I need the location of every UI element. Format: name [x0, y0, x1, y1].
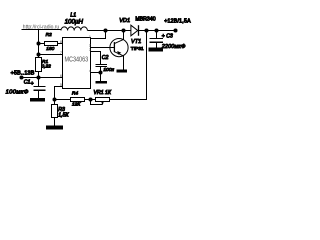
ground (under R3) — [46, 126, 63, 130]
output terminal dot — [174, 29, 178, 33]
node feedback divider junction — [53, 98, 57, 102]
svg-text:2200мкФ: 2200мкФ — [161, 44, 186, 50]
wire pin4 to junction — [91, 72, 101, 74]
svg-text:100µH: 100µH — [65, 18, 84, 25]
node feedback tap — [145, 29, 149, 33]
svg-text:C3: C3 — [166, 33, 173, 39]
wire top rail left (link underline into L1) — [22, 29, 62, 31]
svg-text:100мкФ: 100мкФ — [6, 90, 29, 96]
node R4 / VR1 junction — [89, 98, 93, 102]
svg-text:VD1: VD1 — [119, 18, 130, 24]
svg-text:R4: R4 — [72, 91, 78, 97]
diode VD1 — [131, 25, 139, 36]
ground (under C1) — [30, 98, 45, 101]
svg-text:L1: L1 — [70, 12, 76, 18]
potentiometer VR1 — [91, 98, 110, 105]
svg-text:VR1 1К: VR1 1К — [94, 90, 112, 96]
wire pin5 to feedback node — [55, 87, 63, 100]
svg-text:TIP31: TIP31 — [131, 46, 144, 52]
wire input line to pin 6 — [22, 77, 63, 79]
ground (under C3) — [149, 48, 164, 52]
svg-text:R2: R2 — [46, 32, 52, 38]
resistor R1 — [36, 58, 42, 87]
capacitor C2 — [91, 52, 108, 73]
svg-text:180: 180 — [46, 46, 54, 52]
input terminal dot — [20, 76, 24, 80]
wire top rail L1 to diode — [88, 30, 132, 32]
svg-text:MC34063: MC34063 — [65, 56, 89, 64]
resistor R3 — [52, 100, 58, 126]
svg-text:6: 6 — [60, 74, 62, 78]
wire top rail diode to output terminal — [139, 30, 176, 32]
capacitor C1 — [34, 87, 46, 99]
svg-text:1,5К: 1,5К — [58, 113, 69, 119]
node input junction (R1/C1/input line) — [37, 76, 41, 80]
resistor R2 — [39, 42, 63, 46]
node rail / pin1 — [104, 29, 108, 33]
node column / pin7 junction — [37, 53, 41, 57]
ground (under C2) — [96, 81, 108, 84]
wire left column from rail to R1 — [38, 30, 40, 58]
svg-text:+12В/1,5А: +12В/1,5А — [164, 19, 191, 25]
op-amp U1 MC34063 IC box — [63, 38, 91, 89]
ground (VT1 emitter) — [117, 70, 128, 73]
svg-text:+: + — [31, 81, 34, 87]
wire pin7 to column — [39, 54, 63, 56]
svg-text:MBR340: MBR340 — [135, 17, 155, 23]
resistor R4 — [55, 98, 96, 102]
svg-text:12К: 12К — [72, 101, 81, 107]
wire pin1 up to rail — [91, 31, 106, 39]
node column / R2 junction — [37, 42, 41, 46]
svg-text:VT1: VT1 — [131, 39, 141, 45]
inductor L1 — [61, 27, 87, 31]
svg-text:8: 8 — [60, 40, 62, 44]
node C2 / pin4 junction — [99, 71, 103, 75]
svg-text:+5В..13В: +5В..13В — [11, 70, 35, 76]
node C3 tap — [155, 29, 159, 33]
svg-text:0,22: 0,22 — [42, 63, 52, 69]
svg-text:100н: 100н — [103, 67, 114, 73]
capacitor C3 — [150, 31, 164, 48]
svg-text:C2: C2 — [102, 55, 109, 61]
svg-text:C1: C1 — [24, 80, 31, 86]
svg-text:7: 7 — [60, 51, 62, 55]
wire junction down to ground — [100, 73, 102, 82]
transistor VT1 TIP31 — [91, 31, 129, 70]
svg-text:+: + — [162, 33, 165, 39]
node rail / VT1 collector — [122, 29, 126, 33]
wire VR1 right terminal up to output rail — [110, 31, 147, 100]
watermark link http://rcl-radio.ru — [23, 25, 60, 31]
